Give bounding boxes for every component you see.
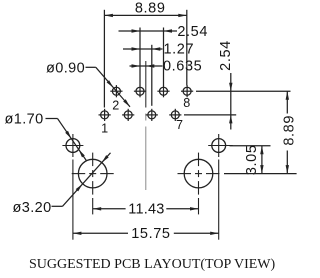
dimension 0.635 horizontal bbox=[130, 64, 163, 67]
svg-text:2.54: 2.54 bbox=[177, 24, 208, 40]
label 2.54 top bbox=[177, 24, 208, 40]
svg-text:1: 1 bbox=[101, 122, 108, 136]
svg-text:ø1.70: ø1.70 bbox=[5, 111, 44, 127]
extension line pin1 column (8.89 left) bbox=[103, 10, 105, 108]
extension line pin5 column bbox=[151, 45, 153, 106]
hole centre line extension right bbox=[224, 173, 297, 175]
extension line pin8 column (8.89 right) bbox=[186, 10, 188, 86]
pin hole 8 (0.90 dia) bbox=[181, 85, 193, 97]
pin hole 3 (0.90 dia) bbox=[122, 109, 134, 121]
centerline vertical (part axis) bbox=[145, 61, 147, 190]
label 0.635 top bbox=[163, 59, 202, 75]
pin number label 8 bbox=[183, 96, 190, 110]
svg-text:7: 7 bbox=[176, 118, 183, 132]
svg-text:3.05: 3.05 bbox=[244, 144, 260, 175]
pin number label 7 bbox=[176, 118, 183, 132]
label 2.54 right rotated bbox=[218, 40, 234, 71]
mounting hole 1.70 dia left bbox=[62, 134, 83, 157]
dimension 3.05 vertical bbox=[260, 146, 263, 174]
pin hole 5 (0.90 dia) bbox=[146, 109, 158, 121]
label 8.89 top bbox=[135, 1, 166, 17]
label 15.75 bbox=[131, 226, 170, 242]
leader line 0.90 dia bbox=[86, 67, 131, 107]
extension tick left 3.20 hole bbox=[92, 198, 94, 214]
label 8.89 right rotated bbox=[282, 115, 298, 146]
callout 0.90 dia label bbox=[46, 60, 85, 76]
pin hole 6 (0.90 dia) bbox=[157, 85, 169, 97]
extension line left 1.70 hole down bbox=[72, 160, 74, 240]
svg-text:2: 2 bbox=[112, 98, 119, 112]
svg-text:8.89: 8.89 bbox=[282, 115, 298, 146]
label 1.27 top bbox=[164, 42, 195, 58]
extension line pin8 row (to right) bbox=[196, 90, 291, 92]
dimension 1.27 horizontal bbox=[123, 47, 163, 50]
svg-text:2.54: 2.54 bbox=[218, 40, 234, 71]
svg-text:0.635: 0.635 bbox=[163, 59, 202, 75]
svg-text:SUGGESTED PCB LAYOUT(TOP VIEW): SUGGESTED PCB LAYOUT(TOP VIEW) bbox=[29, 257, 276, 272]
svg-text:1.27: 1.27 bbox=[164, 42, 195, 58]
svg-text:8: 8 bbox=[183, 96, 190, 110]
callout 1.70 dia label bbox=[5, 111, 44, 127]
pin hole 7 (0.90 dia) bbox=[169, 109, 181, 121]
extension line pin6 column bbox=[163, 28, 165, 86]
mounting hole 3.20 dia right bbox=[178, 153, 220, 195]
pin hole 2 (0.90 dia) bbox=[110, 85, 122, 97]
dimension 15.75 horizontal bbox=[73, 232, 219, 235]
leader line 1.70 dia bbox=[46, 119, 87, 161]
extension line 1.70 hole row (to right) bbox=[230, 145, 271, 147]
label 11.43 bbox=[128, 202, 164, 218]
extension line right 1.70 hole down bbox=[218, 160, 220, 240]
mounting hole 3.20 dia left bbox=[72, 153, 114, 195]
dimension 11.43 horizontal bbox=[93, 207, 199, 210]
dimension 2.54 horizontal bbox=[119, 29, 178, 32]
pin hole 1 (0.90 dia) bbox=[99, 109, 111, 121]
pin number label 2 bbox=[112, 98, 119, 112]
label 3.05 rotated bbox=[244, 144, 260, 175]
dimension 2.54 vertical right bbox=[229, 73, 232, 130]
caption SUGGESTED PCB LAYOUT(TOP VIEW) bbox=[29, 257, 276, 272]
pin number label 1 bbox=[101, 122, 108, 136]
svg-text:8.89: 8.89 bbox=[135, 1, 166, 17]
pin hole 4 (0.90 dia) bbox=[134, 85, 146, 97]
svg-text:11.43: 11.43 bbox=[128, 202, 164, 218]
svg-text:ø3.20: ø3.20 bbox=[13, 200, 52, 216]
callout 3.20 dia label bbox=[13, 200, 52, 216]
dimension 8.89 horizontal bbox=[104, 14, 186, 17]
dimension 8.89 vertical right bbox=[286, 91, 289, 173]
extension line pin7 row (to right) bbox=[184, 114, 236, 116]
svg-text:ø0.90: ø0.90 bbox=[46, 60, 85, 76]
leader line 3.20 dia bbox=[52, 153, 111, 207]
mounting hole 1.70 dia right bbox=[208, 134, 233, 157]
extension tick right 3.20 hole bbox=[198, 198, 200, 214]
extension line pin4 column bbox=[139, 28, 141, 86]
svg-text:15.75: 15.75 bbox=[131, 226, 170, 242]
